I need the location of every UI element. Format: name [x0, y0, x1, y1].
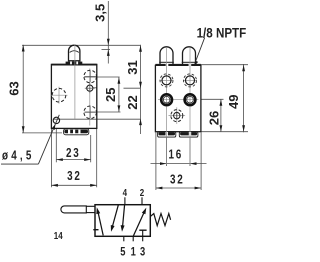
svg-text:32: 32	[170, 173, 185, 187]
svg-text:3: 3	[140, 245, 145, 258]
svg-text:49: 49	[226, 95, 241, 109]
svg-text:26: 26	[207, 111, 222, 125]
svg-text:16: 16	[168, 149, 183, 163]
svg-text:4: 4	[123, 187, 127, 198]
svg-text:3,5: 3,5	[92, 4, 107, 22]
svg-text:2: 2	[140, 187, 144, 198]
svg-text:1: 1	[131, 245, 136, 258]
svg-text:ø4,5: ø4,5	[2, 149, 35, 163]
svg-text:31: 31	[125, 60, 140, 74]
svg-text:25: 25	[103, 88, 118, 102]
svg-text:22: 22	[125, 95, 140, 109]
svg-text:23: 23	[66, 147, 81, 161]
svg-text:5: 5	[120, 245, 125, 258]
svg-text:63: 63	[7, 81, 22, 95]
svg-text:32: 32	[67, 170, 82, 184]
svg-text:1/8 NPTF: 1/8 NPTF	[197, 26, 247, 41]
svg-text:14: 14	[54, 230, 63, 241]
